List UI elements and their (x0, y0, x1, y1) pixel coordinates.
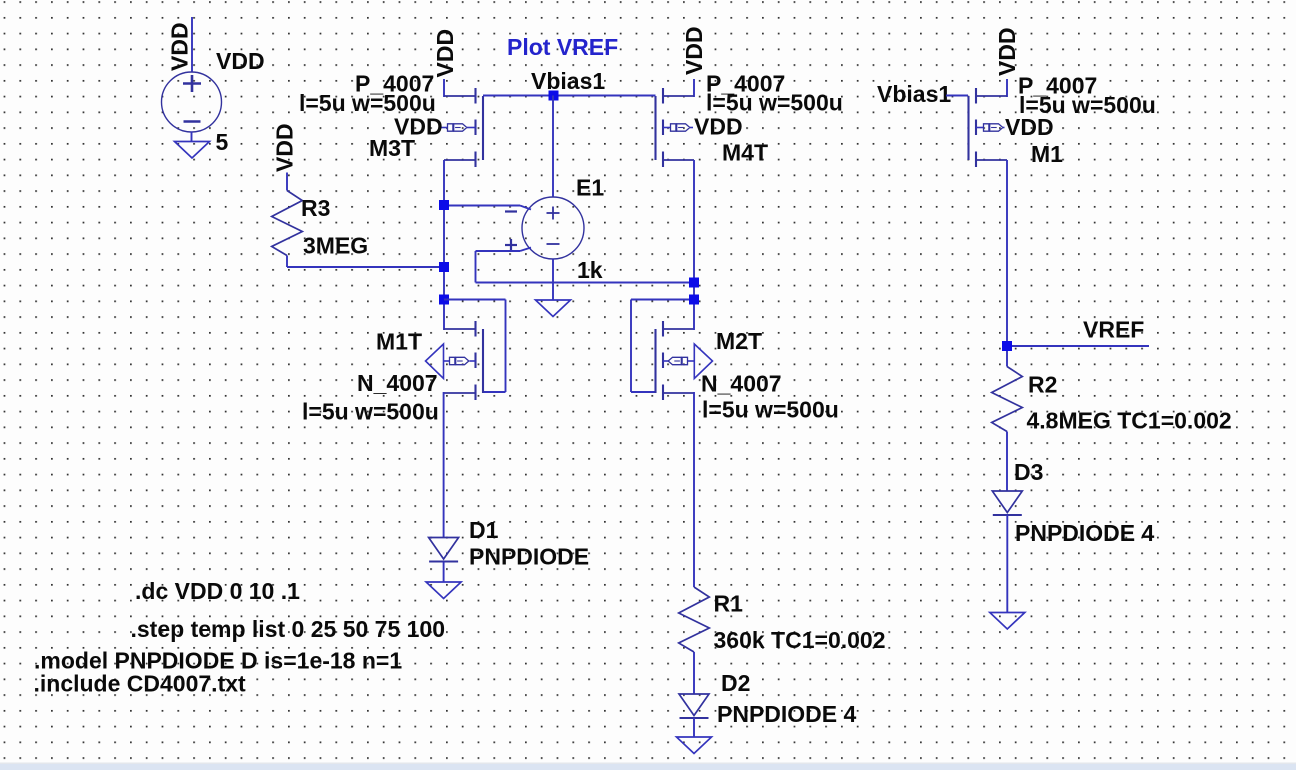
net label Vbias1 (531, 68, 605, 94)
svg-text:l=5u w=500u: l=5u w=500u (302, 399, 439, 425)
ground below D3 (990, 613, 1025, 630)
wire E1 top to Vbias1 (552, 96, 554, 198)
resistor R2 (992, 352, 1023, 491)
label D3 (1014, 459, 1043, 485)
label M3T model P_4007 (355, 71, 434, 97)
vcvs E1 (505, 197, 584, 259)
label M4T (722, 140, 768, 166)
svg-text:VDD: VDD (994, 27, 1020, 76)
label M3T params l=5u w=500u (299, 90, 436, 116)
net label Vbias1 right (877, 81, 951, 107)
svg-text:Vbias1: Vbias1 (877, 81, 951, 107)
svg-text:VDD: VDD (216, 48, 265, 74)
net label VDD at M4T bulk (694, 114, 743, 140)
wire VDD stem to M3T source (443, 79, 445, 97)
label R3 value 3MEG (303, 233, 368, 259)
svg-text:M1T: M1T (376, 329, 422, 355)
label M1T model N_4007 (357, 370, 438, 396)
directive .model PNPDIODE (34, 648, 402, 674)
ground below D1 (426, 582, 461, 599)
svg-text:l=5u w=500u: l=5u w=500u (706, 90, 843, 116)
label M2T model N_4007 (701, 371, 782, 397)
svg-text:Vbias1: Vbias1 (531, 68, 605, 94)
label R2 (1028, 372, 1057, 398)
svg-text:4.8MEG TC1=0.002: 4.8MEG TC1=0.002 (1027, 408, 1232, 434)
directive .step temp (131, 616, 446, 642)
label M4T model P_4007 (706, 71, 785, 97)
label R3 (301, 195, 330, 221)
label E1 value 1k (577, 257, 603, 283)
svg-text:VDD: VDD (694, 114, 743, 140)
annotation Plot VREF (507, 34, 618, 60)
ground below D2 (677, 737, 712, 754)
resistor R3 (272, 173, 303, 268)
svg-text:R3: R3 (301, 195, 330, 221)
svg-text:Plot VREF: Plot VREF (507, 34, 618, 60)
svg-text:VDD: VDD (432, 29, 458, 78)
svg-text:360k TC1=0.002: 360k TC1=0.002 (714, 627, 886, 653)
net label VDD (vertical) at M3T (432, 29, 458, 78)
transistor M1 P_4007 (969, 88, 1008, 167)
junction Vbias1 node (549, 91, 559, 101)
svg-text:3MEG: 3MEG (303, 233, 368, 259)
diode D2 (679, 694, 709, 737)
label R2 value 4.8MEG TC1=0.002 (1027, 408, 1232, 434)
svg-text:D1: D1 (469, 517, 499, 543)
wire right bus vertical (693, 160, 695, 330)
junction left bus E1 minus (439, 200, 449, 210)
svg-text:E1: E1 (576, 175, 604, 201)
label R1 (714, 591, 744, 617)
svg-text:PNPDIODE 4: PNPDIODE 4 (1015, 520, 1155, 546)
transistor M1T N_4007 (426, 321, 484, 400)
wire E1 minus control to left bus (444, 206, 531, 210)
svg-text:M4T: M4T (722, 140, 768, 166)
net label VDD (vertical) at V1 (167, 22, 193, 71)
net label VDD at M3T bulk (394, 114, 443, 140)
wire M2T source to R1 (693, 392, 695, 587)
label D1 model PNPDIODE (469, 544, 589, 570)
wire VDD stem to M1 source (1006, 79, 1008, 97)
directive .dc sweep (135, 578, 300, 604)
net label VDD (vertical) at R3 (272, 123, 298, 172)
ground below E1 (536, 300, 571, 317)
junction VREF node (1002, 341, 1012, 351)
label M1T params l=5u w=500u (302, 399, 439, 425)
wire VDD stem to M4T source (693, 79, 695, 97)
label M1 (1031, 141, 1063, 167)
svg-text:.include CD4007.txt: .include CD4007.txt (34, 671, 247, 697)
svg-text:VREF: VREF (1083, 317, 1144, 343)
svg-text:VDD: VDD (272, 123, 298, 172)
label M3T (369, 135, 415, 161)
wire M1T gate to left bus (444, 300, 506, 393)
directive .include CD4007.txt (34, 671, 247, 697)
label E1 (576, 175, 604, 201)
svg-text:5: 5 (216, 129, 229, 155)
label D2 (721, 670, 750, 696)
wire left bus vertical (443, 160, 445, 330)
voltage source V1 VDD 5V (162, 17, 222, 142)
svg-text:N_4007: N_4007 (357, 370, 438, 396)
label V1 value 5 (216, 129, 229, 155)
wire M1T source to D1 (443, 392, 445, 538)
label D2 model PNPDIODE 4 (717, 701, 857, 727)
junction left bus R3 (439, 262, 449, 272)
svg-text:N_4007: N_4007 (701, 371, 782, 397)
label M4T params l=5u w=500u (706, 90, 843, 116)
wire Vbias1 gate bus M3T to M4T (483, 95, 656, 97)
label M1T (376, 329, 422, 355)
svg-text:1k: 1k (577, 257, 603, 283)
svg-text:PNPDIODE: PNPDIODE (469, 544, 589, 570)
svg-text:M1: M1 (1031, 141, 1063, 167)
svg-text:R2: R2 (1028, 372, 1057, 398)
svg-text:M2T: M2T (716, 328, 762, 354)
transistor M2T N_4007 (656, 321, 713, 400)
svg-text:.dc VDD 0 10 .1: .dc VDD 0 10 .1 (135, 578, 300, 604)
label D1 (469, 517, 499, 543)
junction left bus M1T gate (439, 295, 449, 305)
svg-text:l=5u w=500u: l=5u w=500u (299, 90, 436, 116)
wire E1 bottom to ground (552, 259, 554, 300)
svg-text:M3T: M3T (369, 135, 415, 161)
svg-text:D3: D3 (1014, 459, 1043, 485)
svg-text:PNPDIODE 4: PNPDIODE 4 (717, 701, 857, 727)
net label VREF (1083, 317, 1144, 343)
wire VREF stub (1012, 345, 1149, 347)
svg-text:D2: D2 (721, 670, 750, 696)
junction right bus E1 plus (689, 278, 699, 288)
label M2T params l=5u w=500u (702, 397, 839, 423)
wire M2T gate to right bus (631, 300, 694, 393)
svg-text:l=5u w=500u: l=5u w=500u (702, 397, 839, 423)
svg-text:R1: R1 (714, 591, 744, 617)
transistor M3T P_4007 (442, 88, 484, 167)
label M2T (716, 328, 762, 354)
resistor R1 (679, 587, 710, 694)
wire E1 plus control loop (476, 248, 695, 283)
wire M1 drain to VREF node (1006, 160, 1008, 352)
junction right bus M2T gate (689, 295, 699, 305)
label M1 params l=5u w=500u (1019, 92, 1156, 118)
net label VDD (vertical) at M4T (681, 26, 707, 75)
label D3 model PNPDIODE 4 (1015, 520, 1155, 546)
net label VDD at M1 bulk (1005, 114, 1054, 140)
svg-text:.step temp list 0 25 50 75 100: .step temp list 0 25 50 75 100 (131, 616, 446, 642)
diode D3 (992, 491, 1022, 613)
label R1 value 360k TC1=0.002 (714, 627, 886, 653)
wire Vbias1 to M1 gate (946, 95, 968, 97)
ground below V1 (175, 142, 210, 159)
svg-text:VDD: VDD (1005, 114, 1054, 140)
diode D1 (429, 538, 459, 583)
wire R3 bottom to left bus (287, 266, 444, 268)
net label VDD (vertical) at M1 (994, 27, 1020, 76)
label M1 model P_4007 (1018, 73, 1097, 99)
svg-text:VDD: VDD (681, 26, 707, 75)
transistor M4T P_4007 (656, 88, 695, 167)
svg-text:VDD: VDD (167, 22, 193, 71)
label V1 name VDD (216, 48, 265, 74)
